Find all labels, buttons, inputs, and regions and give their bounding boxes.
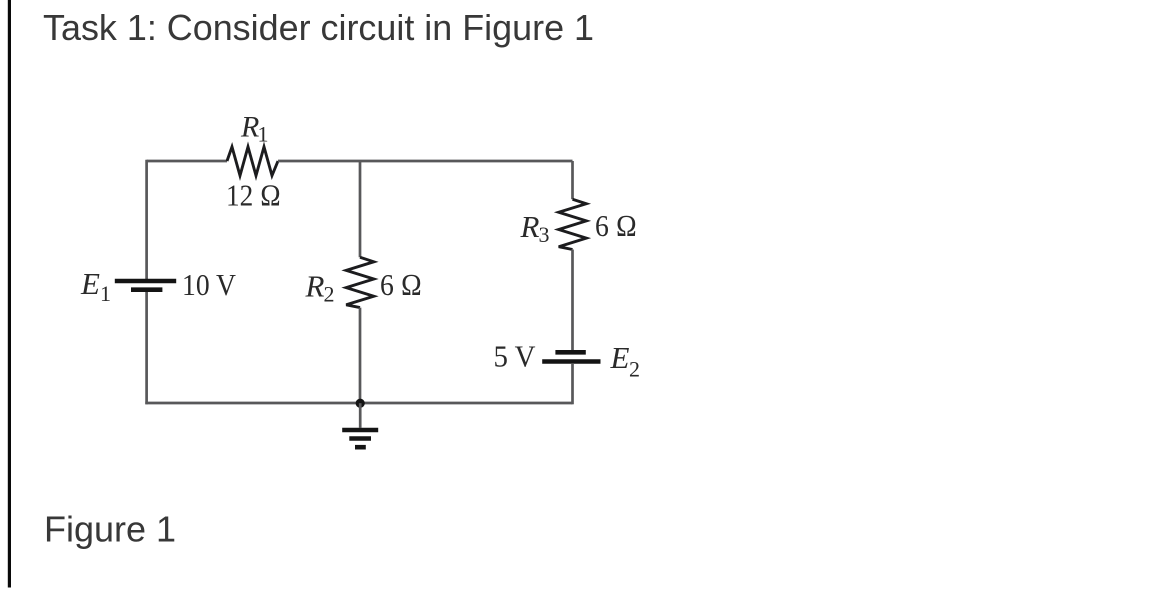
wire right upper <box>571 161 574 199</box>
battery E1 short plate <box>131 287 162 292</box>
svg-text:E: E <box>610 340 630 375</box>
svg-text:R: R <box>240 110 259 143</box>
junction dot <box>356 399 365 408</box>
svg-text:3: 3 <box>539 222 550 247</box>
label R3 <box>520 209 550 247</box>
svg-text:Figure 1: Figure 1 <box>44 508 176 549</box>
svg-text:R: R <box>305 269 325 304</box>
svg-text:R: R <box>520 209 540 244</box>
wire left lower <box>145 292 148 404</box>
wire middle upper <box>359 161 362 257</box>
svg-text:5 V: 5 V <box>494 340 536 374</box>
resistor R1 <box>227 147 278 176</box>
svg-text:E: E <box>80 266 100 301</box>
svg-text:10 V: 10 V <box>182 268 236 302</box>
svg-text:12 Ω: 12 Ω <box>226 178 281 212</box>
resistor R3 <box>559 199 587 249</box>
wire top (left segment to R1) <box>147 160 227 163</box>
svg-text:Task 1: Consider circuit in Fi: Task 1: Consider circuit in Figure 1 <box>43 7 594 48</box>
wire bottom <box>145 402 572 405</box>
label E1 <box>80 266 111 306</box>
battery E2 long plate <box>542 359 600 364</box>
ground stem wire <box>359 403 362 428</box>
svg-text:2: 2 <box>629 357 640 382</box>
label R1 <box>240 110 269 146</box>
wire left upper <box>145 160 148 279</box>
svg-text:1: 1 <box>258 121 269 146</box>
wire top (R1 to right corner) <box>278 160 573 163</box>
svg-text:6 Ω: 6 Ω <box>380 268 422 302</box>
wire right middle <box>571 250 574 351</box>
label E2 <box>610 340 641 381</box>
battery E2 short plate <box>555 350 585 355</box>
resistor R2 <box>346 257 374 307</box>
wire right lower <box>571 364 574 404</box>
svg-text:6 Ω: 6 Ω <box>595 209 637 243</box>
label R2 <box>305 269 335 307</box>
ground <box>342 430 378 447</box>
battery E1 long plate <box>115 279 176 284</box>
svg-text:1: 1 <box>100 281 111 306</box>
wire middle lower <box>359 308 362 405</box>
svg-text:2: 2 <box>324 282 335 307</box>
